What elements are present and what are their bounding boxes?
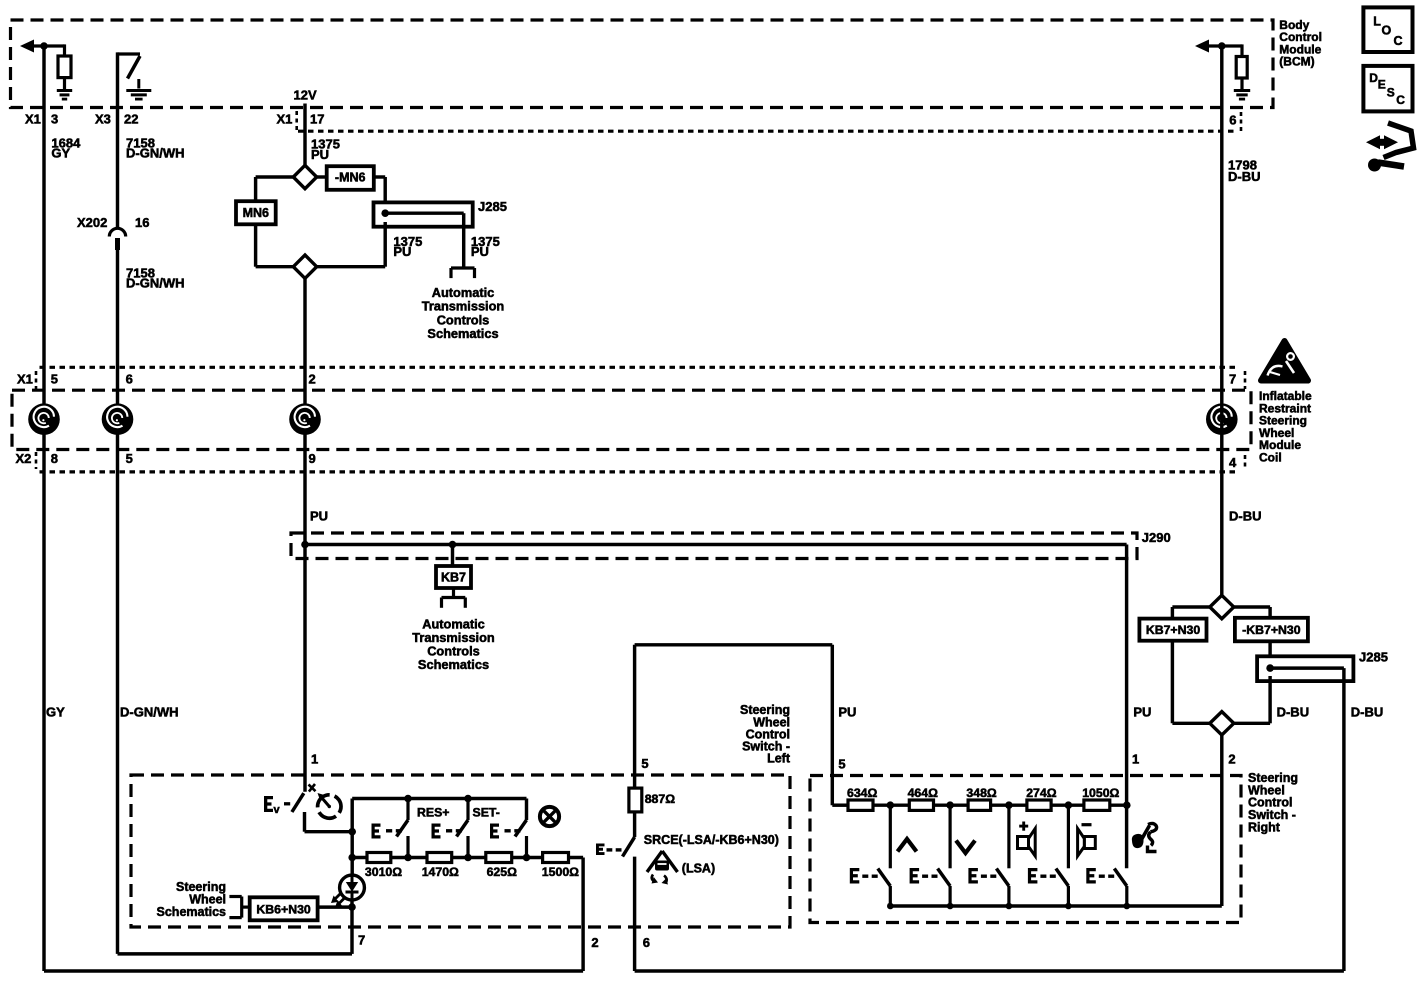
node junction inside J285: [381, 209, 389, 217]
svg-text:2: 2: [1228, 752, 1235, 767]
LED emission arrows: [334, 893, 342, 901]
svg-text:2: 2: [591, 935, 598, 950]
svg-text:SET-: SET-: [473, 806, 500, 820]
wire J285 left branch down to S2: [383, 222, 386, 267]
coil symbol (clockspring) on PU: [289, 403, 321, 435]
svg-text:-MN6: -MN6: [335, 171, 366, 185]
wire pin2-left to GY bottom: [44, 969, 583, 972]
svg-text:D-BU: D-BU: [1228, 169, 1261, 184]
svg-text:464Ω: 464Ω: [908, 786, 939, 800]
svg-text:1500Ω: 1500Ω: [542, 865, 579, 879]
svg-text:274Ω: 274Ω: [1026, 786, 1057, 800]
svg-text:3: 3: [51, 112, 58, 127]
svg-text:X1: X1: [25, 112, 41, 127]
icon harness routing arrow: [1384, 123, 1414, 158]
airbag warning triangle icon: [1261, 341, 1308, 381]
svg-text:1: 1: [1132, 752, 1139, 767]
icon seek up chevron: [898, 839, 917, 852]
fuse box KB7+N30: [1139, 619, 1206, 641]
splice diamond S2 lower: [293, 255, 316, 278]
svg-text:22: 22: [124, 112, 138, 127]
svg-text:X202: X202: [77, 215, 107, 230]
connector dotted row X1 (coil module top): [40, 366, 1239, 369]
icon seek down chevron: [956, 841, 975, 854]
wire 7158 D-GN/WH vertical lower: [116, 250, 119, 954]
off-page bracket to Automatic Transmission Controls Schematics: [451, 266, 475, 269]
svg-text:5: 5: [51, 372, 58, 387]
resistor 625 ohm: [486, 853, 512, 863]
splice pack J285 (left): [374, 202, 473, 226]
node junction J290 left: [301, 541, 309, 549]
svg-text:3010Ω: 3010Ω: [365, 865, 402, 879]
icon voice recognition: [1132, 834, 1144, 848]
fuse box KB7: [436, 566, 471, 588]
ladder wire segment 3: [991, 803, 1027, 806]
wire 1684 GY vertical: [42, 46, 45, 971]
svg-text:D-BU: D-BU: [1351, 704, 1384, 719]
svg-text:1050Ω: 1050Ω: [1082, 786, 1119, 800]
wire -KB7+N30 to J285 right: [1268, 641, 1271, 658]
LSA lane icon: [647, 851, 662, 872]
svg-text:SRCE(-LSA/-KB6+N30): SRCE(-LSA/-KB6+N30): [644, 833, 779, 847]
coil symbol (clockspring) on D-BU: [1206, 403, 1238, 435]
splice diamond S1 upper: [293, 165, 316, 188]
node junction on D-BU output: [1218, 42, 1226, 50]
wire pin7 to D-GN/WH: [118, 952, 353, 955]
node junction ladder / pin1: [1123, 801, 1131, 809]
LED indicator (illumination): [350, 858, 353, 877]
wire S1 to MN6 (left branch): [256, 175, 294, 178]
switch seek up blade: [878, 869, 891, 887]
svg-text:5: 5: [126, 451, 133, 466]
svg-text:5: 5: [838, 757, 845, 772]
coil symbol (clockspring) on D-GN/WH: [102, 403, 134, 435]
svg-text:X1: X1: [277, 112, 293, 127]
fuse box -MN6: [327, 166, 374, 190]
svg-text:D-BU: D-BU: [1229, 509, 1262, 524]
cruise speedometer icon: [313, 790, 346, 823]
wire KB7+N30 down to S4: [1171, 641, 1174, 724]
BCM output arrow (right, to pin 6): [1199, 44, 1242, 47]
svg-text:GY: GY: [46, 704, 65, 719]
resistor 1500 ohm: [543, 853, 569, 863]
module box Steering Wheel Control Switch - Right: [810, 776, 1241, 923]
wire to -MN6: [317, 175, 327, 178]
wire J285 down to S4: [1268, 676, 1271, 723]
module box U1 Body Control Module (BCM): [11, 20, 1274, 108]
inline connector X202 pin 16: [109, 228, 125, 236]
switch volume up actuator E: [968, 868, 978, 884]
splice pack J285 (right): [1257, 656, 1353, 681]
svg-text:PU: PU: [838, 704, 856, 719]
ladder wire segment 2: [934, 803, 969, 806]
svg-text:J285: J285: [1359, 650, 1388, 665]
switch cruise resume branch 1: [404, 795, 412, 803]
wire PU down to coil band: [303, 278, 306, 544]
svg-text:Left: Left: [767, 752, 791, 766]
wire 1795 D-BU vertical from BCM: [1220, 46, 1223, 595]
node junction cruise feed: [348, 828, 356, 836]
switch seek up branch wire: [889, 805, 892, 868]
switch RES+ branch: [464, 795, 472, 803]
wire 7158 D-GN/WH vertical upper: [116, 52, 119, 227]
icon volume down speaker with minus: [1082, 823, 1092, 826]
svg-text:887Ω: 887Ω: [645, 792, 676, 806]
svg-text:348Ω: 348Ω: [966, 786, 997, 800]
cancel icon: [540, 807, 559, 826]
switch SRCE: [623, 837, 635, 857]
svg-text:J285: J285: [478, 199, 507, 214]
bottom bus (right box): [890, 904, 1222, 907]
svg-text:KB7+N30: KB7+N30: [1146, 623, 1201, 637]
resistor 348 ohm: [968, 800, 991, 810]
ladder wire segment 5: [1110, 803, 1127, 806]
wire link pin5 to pin5: [633, 645, 636, 788]
svg-text:Schematics: Schematics: [157, 905, 227, 919]
svg-text:PU: PU: [1133, 704, 1151, 719]
fuse box -KB7+N30: [1235, 618, 1308, 642]
svg-text:1: 1: [311, 752, 318, 767]
coil symbol (clockspring) on GY: [28, 403, 60, 435]
wire 1375 PU from BCM 12V: [303, 104, 306, 166]
svg-text:D-GN/WH: D-GN/WH: [126, 275, 185, 290]
wire MN6 down to S2: [254, 224, 257, 266]
svg-text:9: 9: [309, 451, 316, 466]
switch internal (BCM, to ground): [118, 52, 141, 55]
wire 887 to SRCE switch: [633, 812, 636, 837]
svg-text:7: 7: [1229, 372, 1236, 387]
svg-text:17: 17: [310, 112, 324, 127]
node junction inside J285 right: [1266, 664, 1274, 672]
svg-text:E: E: [1378, 77, 1386, 91]
resistor internal pull (BCM left): [63, 44, 66, 56]
icon DESC button: [1363, 66, 1412, 112]
splice diamond S3 upper right: [1210, 595, 1234, 618]
wire inside J285: [385, 211, 464, 214]
svg-text:Coil: Coil: [1259, 451, 1282, 465]
ladder wire segment 4: [1051, 803, 1084, 806]
resistor 274 ohm: [1027, 800, 1051, 810]
wire cruise switch lower contact: [303, 812, 306, 832]
switch voice blade (on pin1 wire): [1114, 869, 1127, 887]
svg-text:X1: X1: [17, 372, 33, 387]
BCM output arrow (left, to X1-3): [24, 44, 65, 47]
off-page bracket to Steering Wheel Schematics: [240, 897, 243, 918]
svg-text:D-BU: D-BU: [1277, 704, 1310, 719]
svg-text:D-GN/WH: D-GN/WH: [120, 704, 179, 719]
svg-text:5: 5: [641, 756, 648, 771]
svg-text:X2: X2: [16, 451, 32, 466]
switch volume up branch wire: [1007, 805, 1010, 868]
svg-text:X3: X3: [95, 112, 111, 127]
resistor 3010 ohm: [367, 853, 391, 863]
svg-text:2: 2: [309, 372, 316, 387]
resistor internal pull (BCM right): [1240, 44, 1243, 56]
svg-text:O: O: [1382, 24, 1392, 38]
wire switch rail: [352, 797, 526, 800]
svg-text:v: v: [274, 804, 281, 816]
svg-text:Right: Right: [1248, 820, 1281, 834]
svg-text:-KB7+N30: -KB7+N30: [1242, 623, 1301, 637]
svg-text:L: L: [1373, 14, 1381, 28]
wire KB6+N30 to LED node: [318, 905, 352, 908]
wire PU from J290 down to switch-right pin 1: [1125, 545, 1128, 869]
svg-text:Schematics: Schematics: [427, 326, 498, 341]
switch SET- branch: [515, 820, 527, 837]
off-page bracket to Automatic Transmission Controls Schematics (lower): [452, 588, 455, 598]
switch seek down branch wire: [948, 805, 951, 868]
wire S4 down to switch-right pin 2: [1220, 735, 1223, 906]
svg-text:PU: PU: [471, 244, 489, 259]
resistor 1470 ohm: [427, 853, 452, 863]
wire SRCE to pin 6: [633, 857, 636, 971]
icon volume up speaker with plus: [1022, 822, 1025, 831]
wire PU to pin 1 cruise switch: [303, 545, 306, 792]
svg-text:Schematics: Schematics: [418, 657, 489, 672]
fuse box MN6: [236, 201, 276, 224]
ground (BCM right resistor): [1234, 89, 1250, 92]
ground (BCM switch): [137, 79, 140, 89]
switch cruise on-off Ev: [292, 793, 304, 812]
switch volume up blade: [996, 869, 1009, 887]
fuse box KB6+N30: [250, 897, 318, 920]
resistor 464 ohm: [909, 800, 933, 810]
switch volume down actuator E: [1028, 868, 1038, 884]
ground (BCM left resistor): [57, 89, 72, 92]
wire pin 5 into ladder: [832, 803, 848, 806]
wire pin6 to D-BU bottom: [635, 969, 1344, 972]
switch seek down actuator E: [910, 868, 920, 884]
svg-text:(LSA): (LSA): [682, 862, 715, 876]
wire -MN6 to J285: [374, 175, 385, 178]
wire 1375 PU branch to transmission: [462, 213, 465, 268]
svg-text:8: 8: [51, 451, 58, 466]
svg-text:KB7: KB7: [441, 571, 466, 585]
svg-text:16: 16: [135, 215, 149, 230]
connector dotted row X2 (coil module bottom): [40, 470, 1239, 473]
svg-text:PU: PU: [311, 147, 329, 162]
wire bus to pin 2: [581, 858, 584, 972]
svg-text:625Ω: 625Ω: [487, 865, 518, 879]
svg-text:C: C: [1394, 34, 1403, 48]
ladder wire segment 1: [873, 803, 909, 806]
svg-text:634Ω: 634Ω: [847, 786, 878, 800]
svg-text:6: 6: [1229, 113, 1236, 128]
svg-text:(BCM): (BCM): [1279, 55, 1314, 69]
splice diamond S4 lower right: [1210, 712, 1234, 735]
connector dotted row X1 under BCM: [298, 130, 1238, 133]
node junction on GY output: [40, 42, 48, 50]
module box Inflatable Restraint Steering Wheel Module Coil: [12, 390, 1251, 449]
svg-text:PU: PU: [393, 244, 411, 259]
node junction J290 KB7 tap: [449, 541, 457, 549]
wire to KB7+N30: [1172, 605, 1209, 608]
svg-text:12V: 12V: [294, 88, 317, 103]
wire tap down to KB7: [451, 545, 454, 567]
wire inside J285 right: [1270, 666, 1344, 669]
switch volume down branch wire: [1067, 805, 1070, 868]
svg-text:RES+: RES+: [417, 806, 449, 820]
svg-text:GY: GY: [51, 145, 70, 160]
wire D-BU branch down right side: [1342, 668, 1345, 971]
svg-text:MN6: MN6: [243, 206, 269, 220]
switch seek down blade: [938, 869, 951, 887]
switch voice actuator E: [1086, 868, 1096, 884]
icon LOC button: [1363, 7, 1412, 52]
svg-text:4: 4: [1229, 455, 1237, 470]
svg-text:S: S: [1387, 86, 1395, 100]
resistor ladder bus (left box): [352, 856, 583, 859]
svg-text:J290: J290: [1142, 530, 1171, 545]
svg-text:6: 6: [643, 935, 650, 950]
svg-text:KB6+N30: KB6+N30: [256, 902, 311, 916]
wire riser to switch rail: [350, 799, 353, 858]
switch volume down blade: [1056, 869, 1069, 887]
resistor 634 ohm: [848, 800, 873, 810]
svg-text:1470Ω: 1470Ω: [422, 865, 459, 879]
switch seek up actuator E: [850, 868, 860, 884]
module box Steering Wheel Control Switch - Left: [131, 775, 790, 927]
wire LED down to pin 7: [350, 900, 353, 954]
resistor 887 ohm (SRCE): [629, 788, 642, 812]
wire PU through J290: [305, 543, 1127, 546]
svg-text:D-GN/WH: D-GN/WH: [126, 145, 185, 160]
node junction LED / KB6 wire: [348, 903, 356, 911]
svg-text:6: 6: [126, 372, 133, 387]
wire to -KB7+N30: [1234, 605, 1270, 608]
splice pack J290 band: [291, 533, 1137, 559]
svg-text:PU: PU: [310, 509, 328, 524]
svg-text:7: 7: [358, 932, 365, 947]
resistor 1050 ohm: [1084, 800, 1110, 810]
svg-text:C: C: [1396, 93, 1405, 107]
